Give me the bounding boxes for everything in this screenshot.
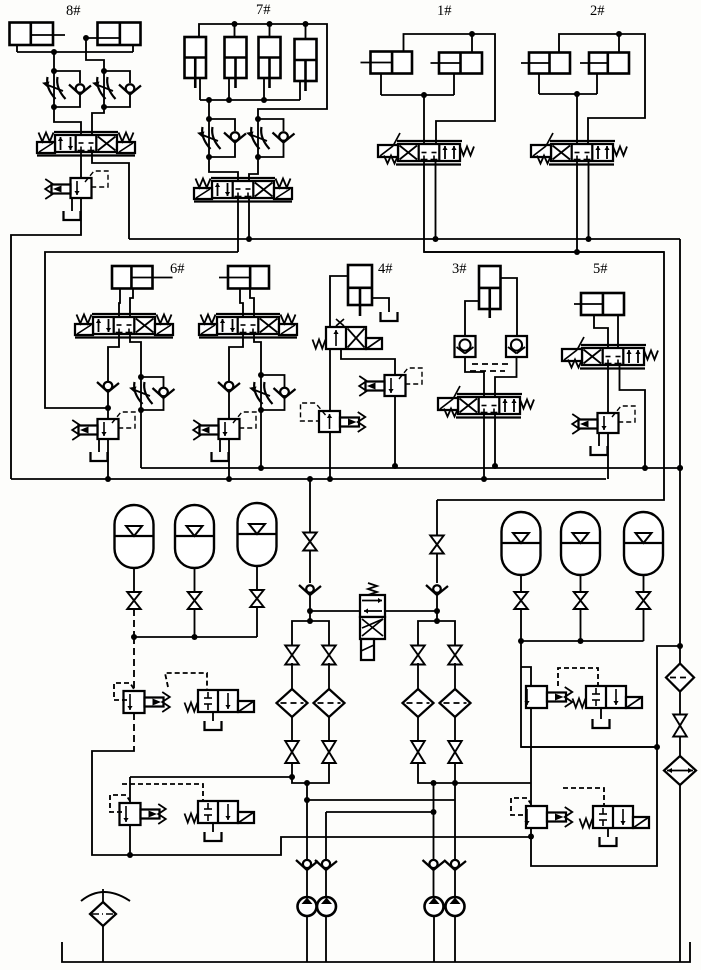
check valve center right bbox=[426, 585, 448, 595]
node y783 R1 bbox=[431, 780, 437, 786]
shutoff valve acc1 bbox=[127, 592, 141, 609]
node 7# throttle1 top bbox=[206, 116, 212, 122]
check valve center left bbox=[299, 585, 321, 595]
pressure reducing valve 6# bbox=[72, 412, 135, 440]
wire filter R2 in bbox=[454, 663, 456, 689]
breather cap bbox=[81, 889, 130, 902]
cylinder 7#-3 bbox=[259, 37, 281, 88]
check valve pump L2 bbox=[315, 860, 337, 870]
node 7# rail c3 bbox=[261, 97, 267, 103]
wire 4# cyl rod side bbox=[372, 298, 389, 312]
filter R2 bbox=[440, 689, 471, 717]
unloader relief RU bbox=[524, 686, 572, 708]
wire center branch right R bbox=[437, 621, 455, 647]
cylinder 8# right bbox=[86, 23, 141, 46]
wire 7# throttle2 main bbox=[257, 119, 259, 157]
wire 7# c3 top bbox=[269, 24, 271, 37]
wire 3# cyl left port bbox=[465, 301, 479, 336]
pressure reducing valve g2 drain bbox=[219, 439, 221, 452]
accumulator 3 bbox=[238, 503, 277, 566]
wire 7# c2 bottom bbox=[228, 78, 230, 100]
wire 7# check1 branch bbox=[209, 119, 235, 131]
throttle valve g2 bbox=[249, 382, 273, 404]
node g2 throttle top bbox=[258, 372, 264, 378]
wire 1# valve A out bbox=[424, 161, 664, 500]
wire 1# to valve bbox=[423, 95, 425, 144]
node center right rail join bbox=[434, 608, 440, 614]
label 3# bbox=[452, 261, 467, 277]
svg-text:3#: 3# bbox=[452, 261, 467, 277]
wire 5# cyl portB bbox=[617, 315, 619, 348]
node acc rail 5 bbox=[578, 638, 584, 644]
tank LL v22 bbox=[205, 832, 222, 841]
wire center left chain bbox=[309, 479, 311, 533]
wire 3# pilot dash 2 bbox=[470, 370, 505, 372]
wire tank rail bbox=[62, 942, 690, 962]
wire 6# throttle main bbox=[140, 377, 142, 410]
wire center left chain 2 bbox=[309, 550, 311, 583]
filter right 1 bbox=[666, 664, 694, 692]
wire 5# drain bbox=[607, 433, 609, 479]
wire filter L1 in bbox=[291, 663, 293, 689]
dashed pilot RL to v22 bbox=[563, 788, 604, 805]
wire 6# valve B down bbox=[130, 334, 141, 377]
wire 1# bottom rail bbox=[381, 94, 454, 96]
wire acc right rail bbox=[521, 640, 644, 642]
node 3# rail upper bbox=[492, 463, 498, 469]
directional valve 3# bbox=[438, 386, 534, 418]
svg-text:1#: 1# bbox=[437, 3, 452, 19]
wire acc4 out bbox=[521, 609, 657, 747]
svg-text:2#: 2# bbox=[590, 3, 605, 19]
svg-text:7#: 7# bbox=[256, 2, 271, 18]
node 7# throttle2 top bbox=[255, 116, 261, 122]
shutoff valve pump L1 bbox=[285, 741, 299, 763]
wire 1# right cyl bottom bbox=[453, 74, 455, 96]
shutoff valve center left bbox=[303, 533, 317, 551]
wire center branch right bbox=[310, 621, 329, 647]
wire 7# c1 bottom bbox=[199, 78, 201, 100]
cylinder 7#-2 bbox=[225, 37, 247, 88]
wire 2# to valve bbox=[576, 94, 578, 144]
wire pump R2 down bbox=[454, 783, 456, 859]
node x680 branch bbox=[677, 643, 683, 649]
shutoff valve filter R2 bbox=[448, 646, 462, 665]
wire 3# valve A out bbox=[483, 414, 485, 479]
unloader valve center bbox=[360, 583, 385, 639]
node RL drain join bbox=[528, 834, 534, 840]
node g2 throttle bottom bbox=[258, 407, 264, 413]
wire RL v22 tank bbox=[607, 828, 609, 837]
wire g2 valve A down bbox=[229, 334, 243, 381]
node 8# rail to valve bbox=[51, 49, 57, 55]
wire pump3 suction bbox=[433, 916, 435, 962]
directional valve 8# bbox=[37, 132, 135, 156]
dashed pilot LU box bbox=[114, 683, 134, 700]
label 4# bbox=[378, 261, 393, 277]
wire 6# cyl portB bbox=[130, 289, 133, 318]
wire 4# valve down left bbox=[329, 349, 331, 411]
node 8# throttle2 bottom bbox=[101, 104, 107, 110]
wire pump L1 down bbox=[306, 783, 308, 859]
wire RU link bbox=[521, 667, 531, 686]
wire center left chain 3 bbox=[309, 594, 311, 621]
check valve 6#-2 bbox=[153, 388, 175, 398]
wire g2 valve B down bbox=[254, 334, 261, 375]
wire 2# top rail bbox=[559, 34, 645, 144]
wire pump1 suction bbox=[306, 916, 308, 962]
node 5# rail upper bbox=[642, 465, 648, 471]
pump 3 bbox=[425, 897, 444, 916]
wire 7# c3 bottom bbox=[263, 78, 265, 100]
wire 7# c4 bottom bbox=[299, 81, 301, 100]
check valve 7#-2 bbox=[273, 132, 295, 142]
node 6# rail bbox=[105, 476, 111, 482]
wire acc2 out bbox=[194, 609, 196, 637]
wire mid rail lower bbox=[11, 478, 606, 480]
check valve 8#-1 bbox=[69, 84, 91, 94]
pilot check valve 3# left bbox=[455, 336, 476, 357]
wire acc1 dashed bbox=[133, 609, 135, 637]
shutoff valve acc4 bbox=[514, 592, 528, 609]
dashed pilot LL box bbox=[110, 795, 130, 812]
unloader relief RL bbox=[524, 806, 572, 828]
wire y777 rail bbox=[130, 776, 292, 778]
wire 6# drain bbox=[107, 439, 109, 479]
wire 3# cyl right port bbox=[501, 278, 518, 336]
wire 2# bottom rail bbox=[539, 93, 597, 95]
node 6# throttle top bbox=[138, 374, 144, 380]
wire g2 check2 branch bbox=[261, 375, 285, 387]
node 4# rail lower bbox=[327, 476, 333, 482]
cylinder 2# right bbox=[580, 53, 629, 74]
node 2# inner rail bbox=[574, 249, 580, 255]
pressure reducing valve 6# tank bbox=[91, 452, 108, 461]
pump 1 bbox=[298, 897, 317, 916]
check valve pump R1 bbox=[423, 860, 445, 870]
node center right branch bbox=[434, 618, 440, 624]
label 7# bbox=[256, 2, 271, 18]
wire LL relief down bbox=[129, 825, 131, 855]
label 5# bbox=[593, 261, 608, 277]
node y783 R2 bbox=[452, 780, 458, 786]
shutoff valve center right bbox=[430, 536, 444, 554]
wire 3# right check down bbox=[495, 357, 517, 397]
wire filter R1 out bbox=[417, 717, 419, 741]
cylinder 2# left bbox=[521, 53, 570, 74]
unloader relief LU bbox=[124, 691, 170, 713]
wire y812 rail bbox=[326, 811, 433, 813]
wire LL relief top bbox=[129, 777, 131, 803]
wire acc5 down bbox=[580, 575, 582, 592]
wire 2# right cyl top bbox=[618, 34, 620, 53]
wire 8# check2 out bbox=[104, 93, 130, 107]
wire 7# top rail bbox=[199, 24, 327, 119]
solenoid valve LU bbox=[185, 690, 255, 712]
wire inner rail right bbox=[424, 251, 664, 253]
wire center right chain 2 bbox=[436, 553, 438, 583]
accumulator 5 bbox=[561, 512, 600, 575]
wire y747 link bbox=[521, 746, 657, 748]
unloader valve arrow bbox=[364, 608, 382, 613]
shutoff valve acc3 bbox=[250, 590, 264, 607]
wire LU drain path bbox=[92, 748, 531, 855]
pressure reducing valve 5# tank bbox=[591, 446, 608, 455]
pressure reducing valve g2 tank bbox=[212, 452, 229, 461]
wire 7# valve A out bbox=[237, 198, 239, 252]
wire 6# valve A down bbox=[108, 334, 119, 381]
wire center branch left R bbox=[418, 621, 437, 647]
node 2# top rail bbox=[616, 31, 622, 37]
wire g2 check2 out bbox=[261, 397, 285, 410]
wire g2 throttle main bbox=[260, 375, 262, 410]
wire acc5 out bbox=[580, 609, 582, 641]
wire filter R1 in bbox=[417, 663, 419, 689]
wire pump L2 down bbox=[325, 812, 327, 859]
check valve 7#-1 bbox=[224, 132, 246, 142]
wire 6# check2 branch bbox=[141, 377, 164, 387]
cylinder 8# left bbox=[10, 23, 66, 46]
wire g2 cyl portA bbox=[240, 289, 243, 318]
pressure reducing valve 5# bbox=[572, 406, 635, 434]
label 1# bbox=[437, 3, 452, 19]
directional valve 5# bbox=[562, 337, 658, 369]
shutoff valve filter L2 bbox=[322, 646, 336, 665]
wire 1# right cyl top bbox=[471, 34, 473, 53]
accumulator 2 bbox=[175, 505, 214, 568]
closed port mark 4# bbox=[336, 319, 344, 326]
wire 4# mid valve out bbox=[394, 396, 396, 466]
node 2# bottom rail bbox=[574, 91, 580, 97]
wire 7# throttle1 main bbox=[208, 119, 210, 157]
breather filter bbox=[90, 902, 116, 926]
directional valve 1# bbox=[378, 133, 474, 165]
wire acc6 out bbox=[643, 609, 645, 641]
node acc rail 1 bbox=[131, 634, 137, 640]
directional valve 2# bbox=[531, 133, 627, 165]
dashed pilot RU box bbox=[558, 668, 598, 686]
accumulator 4 bbox=[502, 512, 541, 575]
node y812 R bbox=[431, 809, 437, 815]
svg-text:4#: 4# bbox=[378, 261, 393, 277]
wire pump L1 link bbox=[292, 763, 307, 783]
node y777 join bbox=[289, 774, 295, 780]
throttle valve 6# bbox=[129, 382, 153, 404]
wire 7# bottom rail bbox=[200, 99, 300, 101]
wire 7# valve B out bbox=[248, 198, 250, 239]
wire 6# check to node bbox=[107, 391, 109, 419]
wire y800 rail bbox=[307, 799, 455, 801]
node x657 y747 bbox=[654, 744, 660, 750]
wire g2 check down bbox=[228, 391, 230, 419]
node 7# rail c2 bbox=[226, 97, 232, 103]
dashed pilot RL box bbox=[511, 798, 531, 815]
svg-text:6#: 6# bbox=[170, 261, 185, 277]
shutoff valve pump R1 bbox=[411, 741, 425, 763]
wire 8# to valve port A bbox=[54, 107, 81, 135]
cylinder 1# right bbox=[431, 53, 483, 74]
label 8# bbox=[66, 3, 81, 19]
wire 3# left check down bbox=[465, 357, 484, 397]
wire 7# check2 branch bbox=[258, 119, 284, 131]
wire 7# c2 top bbox=[234, 24, 236, 37]
node 8# rod tap bbox=[83, 35, 89, 41]
wire 2# valve B out bbox=[588, 161, 590, 239]
throttle valve 8#-1 bbox=[42, 77, 66, 99]
pressure reducing valve 8# bbox=[45, 171, 108, 199]
svg-text:8#: 8# bbox=[66, 3, 81, 19]
filter R1 bbox=[403, 689, 434, 717]
svg-text:5#: 5# bbox=[593, 261, 608, 277]
dashed pilot LL to v22 bbox=[122, 784, 203, 801]
node center left branch bbox=[307, 618, 313, 624]
tank LU v22 bbox=[205, 721, 222, 730]
accumulator 1 bbox=[115, 505, 154, 568]
filter L2 bbox=[314, 689, 345, 717]
filter L1 bbox=[277, 689, 308, 717]
pressure reducing valve 8# tank bbox=[64, 211, 81, 220]
wire 4# low valve out bbox=[329, 432, 331, 479]
node center left rail join bbox=[307, 608, 313, 614]
shutoff valve right edge bbox=[673, 715, 687, 737]
node center left top bbox=[307, 476, 313, 482]
throttle valve 7#-1 bbox=[197, 127, 221, 149]
wire 8# rod tap bbox=[86, 38, 104, 71]
wire acc left rail bbox=[134, 636, 257, 638]
node 7# top rail c4 bbox=[303, 21, 309, 27]
node 7# top rail c3 bbox=[267, 21, 273, 27]
pump 2 bbox=[317, 897, 336, 916]
node pump L feed bbox=[304, 780, 310, 786]
wire 5# valve A out bbox=[607, 365, 609, 413]
node 7# rail drop bbox=[206, 97, 212, 103]
wire LU dashed mid bbox=[133, 637, 135, 691]
accumulator 6 bbox=[624, 512, 663, 575]
node acc rail 2 bbox=[192, 634, 198, 640]
pressure reducing valve 8# drain bbox=[71, 198, 73, 211]
sequence valve 4# mid bbox=[359, 368, 422, 396]
wire 7# check1 out bbox=[209, 141, 235, 157]
wire acc4 down bbox=[520, 575, 522, 592]
wire pump L1 to pump bbox=[306, 870, 308, 897]
wire 8# valve T line bbox=[92, 152, 129, 239]
wire 1# valve B out bbox=[435, 161, 437, 239]
relief valve 4# low bbox=[301, 403, 366, 432]
pump 4 bbox=[446, 897, 465, 916]
wire pump R1 to pump bbox=[433, 870, 435, 897]
wire pump2 suction bbox=[325, 916, 327, 962]
wire 5# cyl portA bbox=[594, 315, 608, 348]
node acc rail 4 bbox=[518, 638, 524, 644]
wire RL relief down bbox=[531, 646, 680, 866]
node 3# rail lower bbox=[481, 476, 487, 482]
wire y783 rail bbox=[418, 763, 531, 783]
node 4# rail upper bbox=[392, 463, 398, 469]
tank 4# cylinder bbox=[381, 312, 398, 321]
filter right 2 bbox=[664, 756, 696, 785]
wire inner rail left bbox=[45, 252, 238, 408]
wire center right chain bbox=[436, 500, 438, 536]
wire 8# left cyl bottom bbox=[16, 45, 18, 52]
wire 7# drop bbox=[208, 100, 210, 119]
throttle valve 8#-2 bbox=[92, 77, 116, 99]
cylinder 5# bbox=[574, 293, 624, 315]
wire filter R2 out bbox=[454, 717, 456, 741]
throttle valve 7#-2 bbox=[246, 127, 270, 149]
unloader relief LL bbox=[120, 803, 166, 825]
wire 4# cyl top port bbox=[330, 276, 348, 327]
wire 3# valve B out bbox=[494, 414, 496, 466]
check valve pump L1 bbox=[296, 860, 318, 870]
wire g2 branch out bbox=[260, 410, 262, 468]
node 8# throttle2 top bbox=[101, 68, 107, 74]
cylinder 7#-1 bbox=[185, 37, 207, 88]
shutoff valve acc2 bbox=[188, 592, 202, 609]
node 1# bottom rail bbox=[421, 92, 427, 98]
wire 8# left branch down bbox=[53, 52, 55, 107]
wire 3# pilot dash 1 bbox=[472, 363, 509, 365]
wire acc3 down bbox=[256, 566, 258, 590]
directional valve group2 bbox=[199, 314, 297, 338]
wire RU v22 tank bbox=[600, 708, 602, 719]
node y800 join bbox=[304, 797, 310, 803]
node 6# supply join bbox=[105, 405, 111, 411]
wire mid rail upper bbox=[141, 467, 680, 469]
solenoid valve 4# bbox=[313, 327, 383, 349]
wire acc1 down bbox=[133, 568, 135, 592]
solenoid valve RL bbox=[580, 806, 650, 828]
wire 8# check1 branch bbox=[54, 71, 80, 83]
wire 8# cyl rail bbox=[17, 51, 133, 53]
check valve g2-2 bbox=[274, 388, 296, 398]
wire pump4 suction bbox=[454, 916, 456, 962]
tank RU v22 bbox=[593, 719, 610, 728]
node 7# throttle2 bottom bbox=[255, 154, 261, 160]
shutoff valve filter L1 bbox=[285, 646, 299, 665]
check valve g2 bbox=[218, 382, 240, 392]
node LL drain join bbox=[127, 852, 133, 858]
pilot check valve 3# right bbox=[506, 336, 527, 357]
wire 2# right cyl bottom bbox=[596, 74, 598, 95]
shutoff valve acc6 bbox=[637, 592, 651, 609]
solenoid valve RU bbox=[573, 686, 643, 708]
wire pump L2 link bbox=[307, 763, 329, 783]
wire 8# right cyl bottom bbox=[132, 45, 134, 52]
wire 8# throttle2 main bbox=[103, 71, 105, 107]
node 8# throttle1 top bbox=[51, 68, 57, 74]
cylinder group2 bbox=[219, 266, 269, 289]
label 6# bbox=[170, 261, 185, 277]
wire 7# c4 top bbox=[305, 24, 307, 39]
pressure reducing valve 6# drain bbox=[98, 439, 100, 452]
wire pump L2 to pump bbox=[325, 870, 327, 897]
wire acc3 out bbox=[256, 607, 258, 637]
wire RU relief down bbox=[530, 708, 532, 806]
shutoff valve pump L2 bbox=[322, 741, 336, 763]
directional valve 7# bbox=[194, 178, 292, 202]
wire 8# check2 branch bbox=[104, 71, 130, 83]
wire 6# branch out bbox=[140, 410, 142, 468]
wire 8# to valve port B bbox=[92, 107, 104, 135]
wire LU dashed down bbox=[133, 713, 135, 748]
node 2# T rail bbox=[586, 236, 592, 242]
node 6# throttle bottom bbox=[138, 407, 144, 413]
check valve pump R2 bbox=[444, 860, 466, 870]
wire acc2 down bbox=[194, 568, 196, 592]
node g2 rail bbox=[226, 476, 232, 482]
pressure reducing valve g2 bbox=[193, 412, 256, 440]
solenoid valve LL bbox=[185, 801, 255, 823]
